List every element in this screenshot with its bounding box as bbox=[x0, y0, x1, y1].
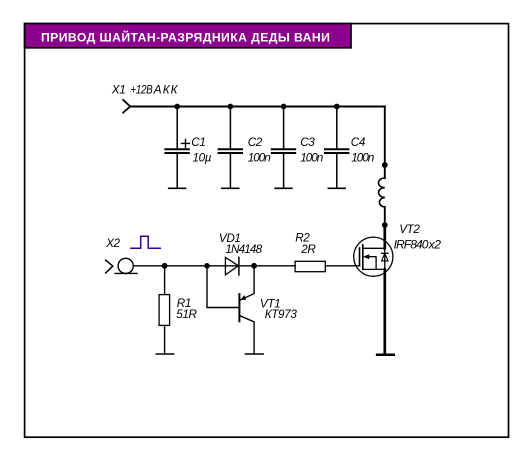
svg-text:100n: 100n bbox=[351, 151, 374, 164]
svg-text:C3: C3 bbox=[300, 136, 315, 149]
svg-text:2R: 2R bbox=[300, 243, 316, 256]
svg-text:АКК: АКК bbox=[153, 83, 179, 96]
svg-text:C2: C2 bbox=[248, 136, 263, 149]
svg-text:100n: 100n bbox=[300, 151, 323, 164]
svg-text:VT2: VT2 bbox=[399, 223, 420, 236]
svg-text:1N4148: 1N4148 bbox=[225, 243, 262, 256]
svg-text:X1: X1 bbox=[111, 83, 126, 96]
svg-text:51R: 51R bbox=[176, 308, 197, 321]
svg-text:КТ973: КТ973 bbox=[265, 308, 298, 321]
svg-text:+12В: +12В bbox=[130, 84, 152, 97]
svg-text:X2: X2 bbox=[105, 237, 120, 250]
svg-text:10µ: 10µ bbox=[193, 151, 212, 164]
svg-text:C4: C4 bbox=[351, 136, 366, 149]
svg-text:IRF840x2: IRF840x2 bbox=[394, 237, 442, 251]
svg-text:ПРИВОД ШАЙТАН-РАЗРЯДНИКА ДЕДЫ: ПРИВОД ШАЙТАН-РАЗРЯДНИКА ДЕДЫ ВАНИ bbox=[41, 30, 330, 45]
svg-text:100n: 100n bbox=[248, 151, 271, 164]
svg-text:C1: C1 bbox=[191, 136, 205, 149]
